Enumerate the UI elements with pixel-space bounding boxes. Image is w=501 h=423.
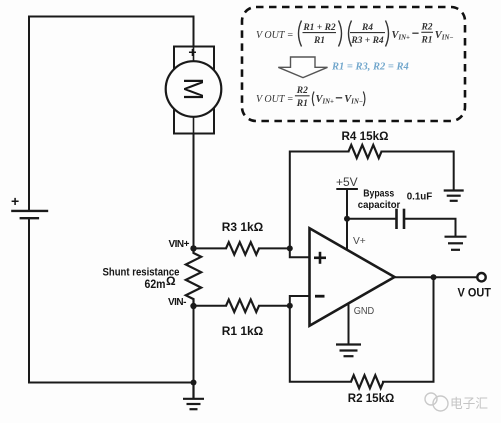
wire VIN- node to R1 [194, 305, 227, 307]
wire R3 to plus node [259, 247, 290, 249]
svg-text:M: M [178, 78, 209, 101]
shunt resistor 62m ohm [186, 248, 201, 306]
resistor R3 [226, 242, 259, 254]
node minus input junction [287, 303, 293, 309]
wire minus node to op-amp minus input [290, 296, 310, 306]
wire VIN- node to bottom [193, 306, 195, 382]
svg-text:62m: 62m [145, 279, 166, 291]
wire bottom horizontal [29, 382, 194, 384]
svg-text:Bypass: Bypass [363, 189, 394, 200]
wire VIN+ node to R3 [194, 247, 227, 249]
svg-text:V OUT =: V OUT = [256, 94, 294, 105]
formula line 1: V OUT = ((R1+R2)/R1)(R4/(R3+R4))VIN+ - (R2/R1)VIN- [256, 21, 453, 47]
svg-text:IN+: IN+ [322, 99, 335, 106]
svg-text:V OUT: V OUT [458, 286, 492, 300]
node output junction [431, 274, 437, 280]
wire plus node up to R4 [290, 152, 349, 249]
svg-text:R4 15kΩ: R4 15kΩ [342, 129, 389, 143]
watermark icon [425, 393, 448, 411]
svg-text:IN+: IN+ [398, 35, 411, 42]
svg-text:R1: R1 [296, 99, 308, 109]
wire minus node down to R2 [290, 306, 351, 382]
wire +5V to V+ pin [346, 189, 348, 250]
svg-text:R4: R4 [361, 23, 373, 33]
node bottom-left junction [191, 380, 197, 386]
terminal V OUT (open circle) [477, 273, 485, 281]
svg-text:V+: V+ [353, 236, 366, 247]
svg-text:+: + [11, 193, 19, 209]
node plus input junction [287, 245, 293, 251]
svg-text:0.1uF: 0.1uF [407, 192, 433, 203]
svg-text:V OUT =: V OUT = [256, 30, 294, 41]
wire op-amp output to terminal [395, 276, 479, 278]
svg-text:+5V: +5V [336, 175, 358, 189]
svg-text:+: + [188, 44, 196, 60]
svg-text:R1 = R3, R2 = R4: R1 = R3, R2 = R4 [331, 62, 409, 73]
resistor R1 [226, 300, 259, 312]
svg-text:VIN+: VIN+ [169, 239, 190, 250]
formula arrow (hollow down arrow) [278, 57, 327, 78]
svg-text:R1: R1 [313, 36, 325, 46]
svg-text:capacitor: capacitor [358, 200, 401, 211]
formula box dashed border [242, 7, 465, 121]
node V+ supply junction [344, 216, 350, 222]
wire bypass cap right lead to ground G3 [405, 219, 456, 236]
op-amp U1 [310, 228, 395, 325]
node VIN- [190, 303, 196, 309]
svg-text:GND: GND [354, 306, 375, 317]
ground G4 (op-amp GND) [336, 345, 361, 357]
wire R1 to minus node [259, 305, 290, 307]
capacitor C1 bypass 0.1uF [397, 209, 405, 229]
ground G2 (R4 right) [444, 191, 464, 201]
node VIN+ [190, 245, 196, 251]
svg-text:R2 15kΩ: R2 15kΩ [348, 391, 395, 405]
wire R2 to output node [383, 277, 434, 382]
motor M1 [166, 47, 222, 134]
svg-text:R1: R1 [420, 36, 432, 46]
ground G1 (bottom left) [183, 383, 204, 410]
svg-text:电子汇: 电子汇 [450, 396, 488, 411]
svg-text:R3 1kΩ: R3 1kΩ [222, 220, 264, 234]
wire R4 to ground G2 [382, 152, 454, 190]
svg-text:R2: R2 [296, 86, 308, 96]
svg-text:R2: R2 [420, 23, 432, 33]
svg-text:R1 1kΩ: R1 1kΩ [222, 324, 264, 338]
resistor R2 [351, 375, 383, 388]
wire plus node to op-amp plus input [290, 248, 310, 257]
op-amp plus input symbol [314, 252, 326, 264]
battery BT1 [11, 211, 48, 218]
svg-text:R1 + R2: R1 + R2 [302, 23, 336, 33]
svg-text:IN−: IN− [441, 35, 454, 42]
wire +5V bar [337, 188, 357, 190]
wire bypass cap left lead [347, 218, 396, 220]
svg-text:Ω: Ω [166, 274, 176, 288]
wire left vertical (battery top lead) [28, 17, 30, 211]
wire GND pin [348, 304, 350, 344]
formula line 3: V OUT = R2/R1 (VIN+ - VIN-) [256, 86, 365, 109]
wire left vertical (battery bottom lead) [28, 219, 30, 383]
svg-text:R3 + R4: R3 + R4 [350, 36, 384, 46]
wire motor to VIN+ node [193, 134, 195, 249]
wire top horizontal [29, 16, 194, 18]
op-amp minus input symbol [315, 295, 325, 298]
wire motor top lead [193, 17, 195, 47]
resistor R4 [349, 145, 382, 158]
svg-text:IN−: IN− [350, 99, 363, 106]
ground G3 (capacitor right) [445, 237, 467, 250]
svg-text:VIN-: VIN- [168, 297, 187, 308]
